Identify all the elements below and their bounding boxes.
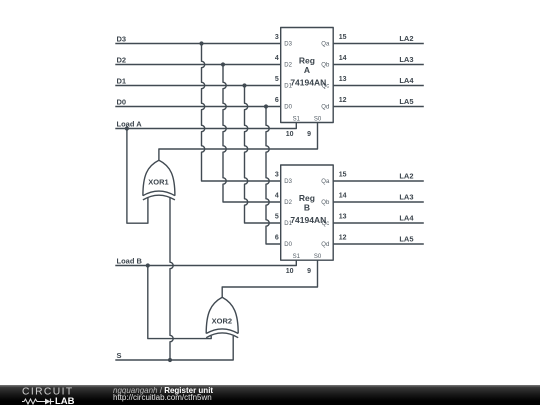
wire S	[115, 336, 233, 360]
svg-text:LA4: LA4	[399, 214, 414, 223]
register U1 74194AN Reg A	[281, 28, 334, 123]
svg-text:Reg: Reg	[299, 193, 315, 203]
svg-text:74194AN: 74194AN	[290, 215, 326, 225]
wire U1 pin Qa to LA2	[333, 43, 424, 45]
svg-text:13: 13	[339, 76, 347, 83]
svg-text:Qa: Qa	[321, 179, 330, 185]
svg-text:D0: D0	[284, 242, 292, 248]
svg-text:14: 14	[339, 55, 347, 62]
svg-text:9: 9	[307, 131, 311, 138]
svg-text:D3: D3	[284, 41, 292, 47]
wire U2 pin Qa to LA2	[333, 180, 424, 182]
pin numbers U2	[275, 172, 347, 275]
svg-text:12: 12	[339, 97, 347, 104]
svg-text:D2: D2	[284, 62, 292, 68]
wire Load A to U1 pin S1	[115, 123, 296, 129]
wire D2 to U2 pin D2 (vertical with hops)	[223, 65, 281, 203]
svg-text:D2: D2	[117, 56, 127, 65]
svg-text:S1: S1	[293, 116, 301, 122]
wire D0 to U2 pin D0 (vertical with hops)	[266, 107, 281, 245]
svg-text:S1: S1	[293, 254, 301, 260]
svg-text:5: 5	[275, 76, 279, 83]
wire U1 pin Qd to LA5	[333, 106, 424, 108]
svg-text:3: 3	[275, 172, 279, 179]
svg-text:10: 10	[286, 131, 294, 138]
svg-text:S0: S0	[314, 116, 322, 122]
wire U1 pin Qb to LA3	[333, 64, 424, 66]
svg-text:4: 4	[275, 193, 279, 200]
svg-text:12: 12	[339, 235, 347, 242]
xor gate XOR1	[143, 160, 175, 200]
wire U2 pin Qd to LA5	[333, 243, 424, 245]
svg-text:14: 14	[339, 193, 347, 200]
svg-text:LA5: LA5	[399, 97, 413, 106]
svg-text:Qb: Qb	[321, 62, 330, 68]
pin numbers U1	[275, 34, 347, 138]
node D3 junction	[199, 41, 203, 45]
svg-text:XOR2: XOR2	[212, 317, 232, 326]
svg-text:10: 10	[286, 268, 294, 275]
svg-text:4: 4	[275, 55, 279, 62]
wire D3	[115, 43, 280, 45]
svg-text:Reg: Reg	[299, 56, 315, 66]
svg-text:LA5: LA5	[399, 235, 413, 244]
footer CircuitLab logo	[21, 385, 96, 405]
xor gate XOR2	[206, 297, 238, 337]
svg-text:6: 6	[275, 235, 279, 242]
svg-text:A: A	[304, 65, 310, 75]
svg-text:D3: D3	[117, 35, 127, 44]
svg-text:S: S	[117, 351, 122, 360]
wire S to XOR1 input B (vertical with hops)	[170, 197, 173, 360]
node Load B junction	[146, 263, 150, 267]
svg-text:Qd: Qd	[321, 104, 329, 110]
svg-text:LA3: LA3	[399, 55, 413, 64]
svg-text:XOR1: XOR1	[148, 177, 168, 186]
node S junction	[168, 358, 172, 362]
register U2 74194AN Reg B	[281, 165, 334, 260]
svg-text:D0: D0	[284, 104, 292, 110]
svg-text:D1: D1	[117, 77, 127, 86]
svg-text:LA3: LA3	[399, 193, 413, 202]
svg-text:S0: S0	[314, 254, 322, 260]
node Load A junction	[125, 126, 129, 130]
node D0 junction	[264, 104, 268, 108]
node D1 junction	[242, 83, 246, 87]
wire XOR2 output to U2 pin S0	[222, 260, 317, 297]
wire Load B to U2 pin S1	[115, 260, 296, 265]
svg-text:15: 15	[339, 172, 347, 179]
svg-text:Load A: Load A	[117, 120, 143, 129]
wire XOR1 output to U1 pin S0	[159, 123, 318, 161]
node D2 junction	[221, 62, 225, 66]
svg-text:9: 9	[307, 268, 311, 275]
wire D1	[115, 85, 280, 87]
svg-text:Qd: Qd	[321, 242, 329, 248]
svg-text:B: B	[304, 203, 310, 213]
wire D3 to U2 pin D3 (vertical with hops)	[202, 44, 281, 182]
wire Load A to XOR1 input A	[127, 129, 148, 224]
footer title	[113, 387, 213, 401]
svg-text:13: 13	[339, 214, 347, 221]
svg-text:74194AN: 74194AN	[290, 77, 326, 87]
svg-text:5: 5	[275, 214, 279, 221]
svg-text:3: 3	[275, 34, 279, 41]
wire U1 pin Qc to LA4	[333, 85, 424, 87]
wire U2 pin Qb to LA3	[333, 201, 424, 203]
svg-text:D3: D3	[284, 179, 292, 185]
svg-text:D2: D2	[284, 200, 292, 206]
svg-text:15: 15	[339, 34, 347, 41]
svg-text:LA4: LA4	[399, 76, 414, 85]
svg-text:LA2: LA2	[399, 34, 413, 43]
footer bar	[0, 385, 540, 405]
svg-text:6: 6	[275, 97, 279, 104]
wire D0	[115, 106, 280, 108]
svg-text:LAB: LAB	[55, 396, 75, 405]
svg-text:LA2: LA2	[399, 172, 413, 181]
svg-text:D0: D0	[117, 98, 127, 107]
wire D2	[115, 64, 280, 66]
wire Load B to XOR2 input A	[148, 266, 211, 339]
wire U2 pin Qc to LA4	[333, 222, 424, 224]
svg-text:Qb: Qb	[321, 200, 330, 206]
svg-text:Load B: Load B	[117, 257, 143, 266]
svg-text:Qa: Qa	[321, 41, 330, 47]
wire D1 to U2 pin D1 (vertical with hops)	[244, 86, 280, 224]
